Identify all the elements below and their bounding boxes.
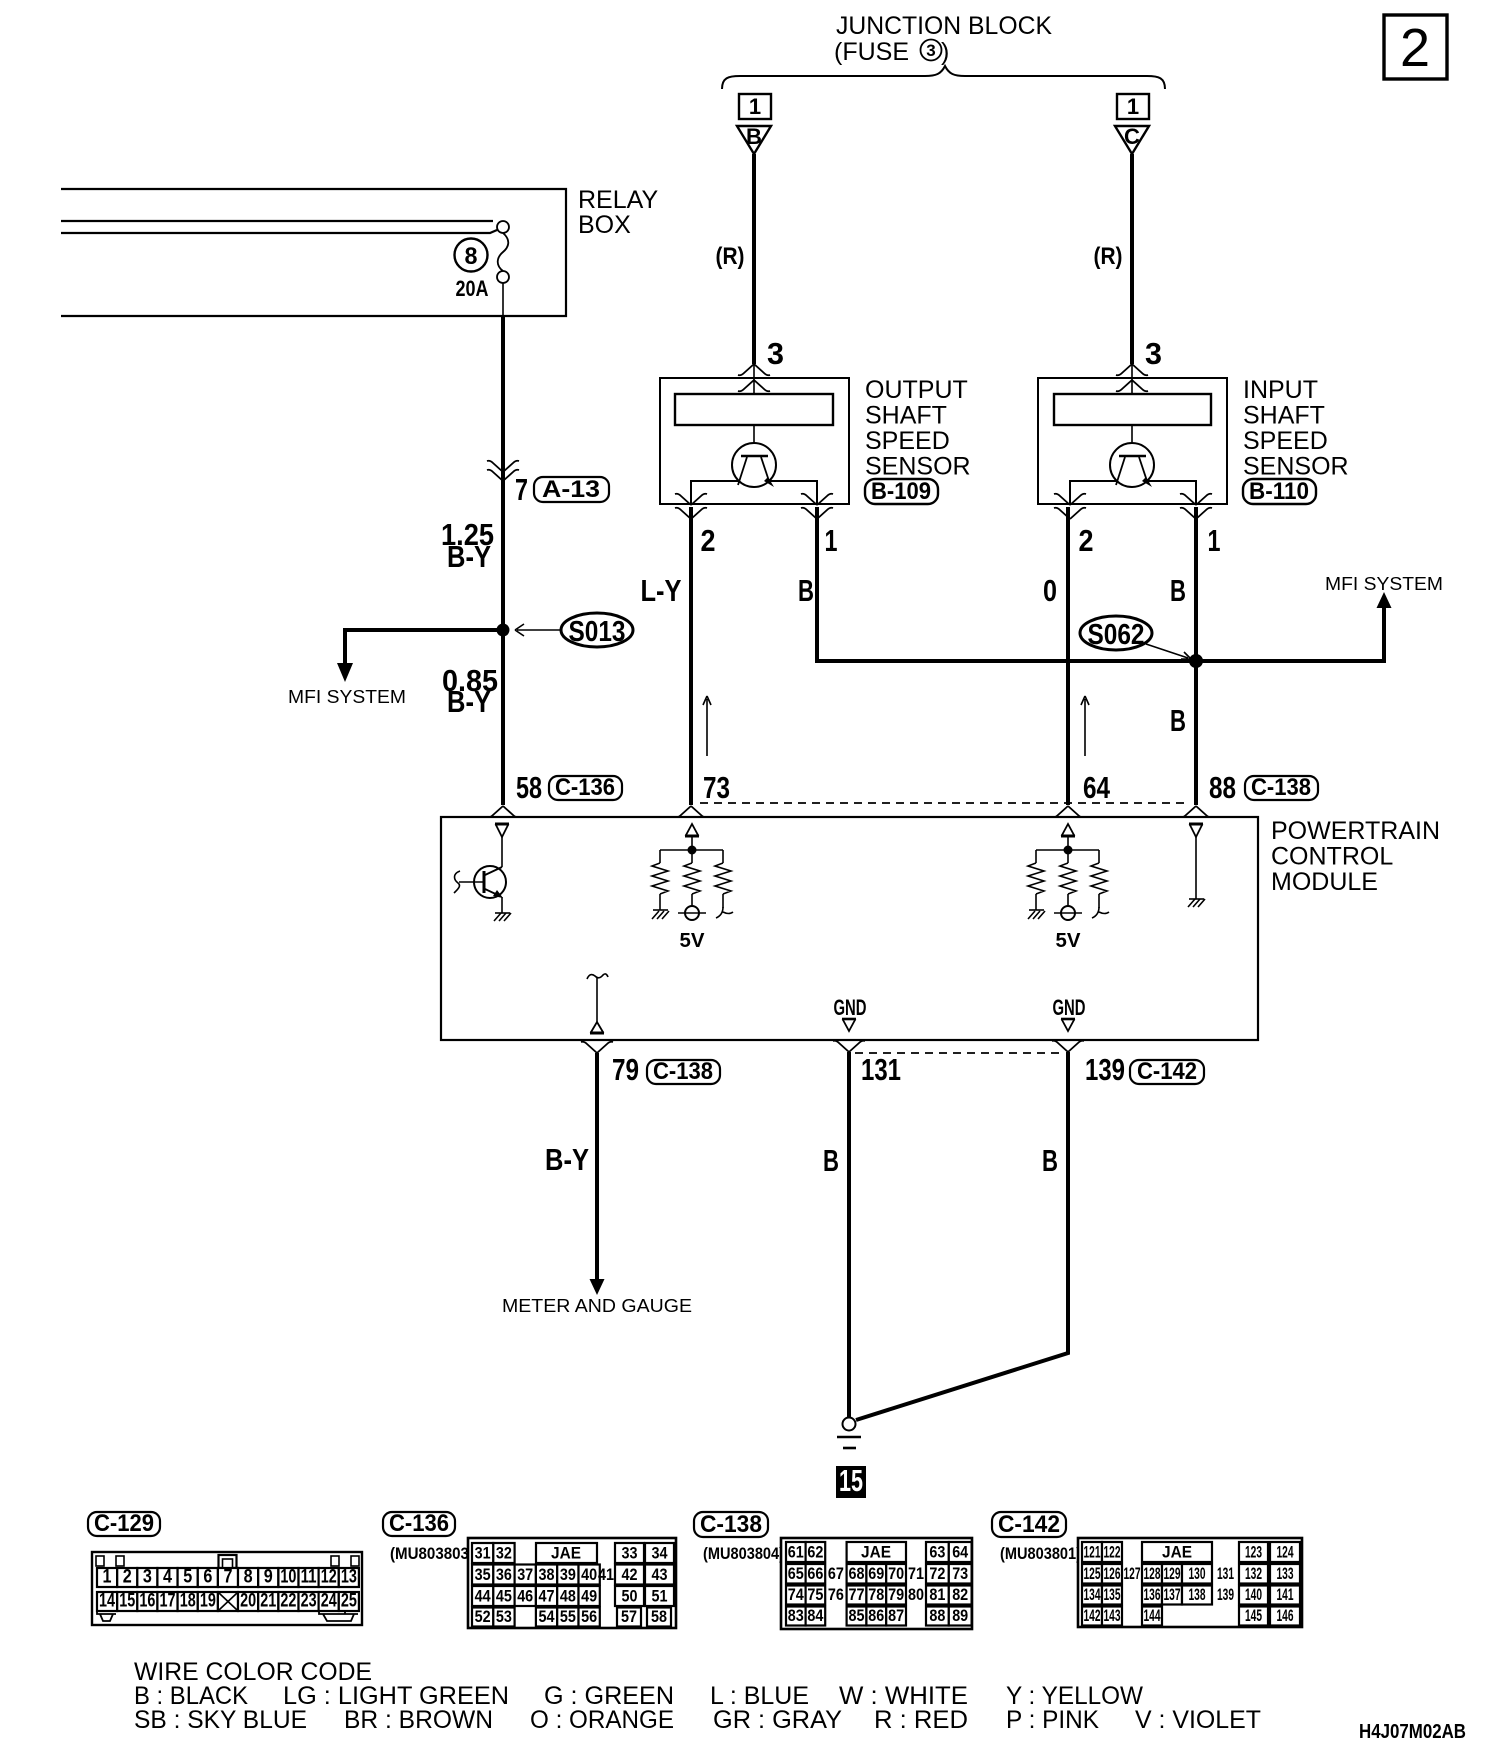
- svg-text:B: B: [1170, 573, 1186, 608]
- svg-text:2: 2: [701, 523, 716, 558]
- connector C-136 label: [549, 774, 622, 801]
- connector C-142 pin table: [1078, 1538, 1302, 1627]
- svg-text:SENSOR: SENSOR: [1243, 453, 1349, 481]
- PCM input triangle pin 64: [1061, 824, 1075, 836]
- fuse terminal upper: [497, 221, 509, 233]
- resistor R4: [1028, 863, 1044, 894]
- svg-text:22: 22: [280, 1591, 296, 1612]
- splice S013 junction dot: [497, 624, 510, 637]
- sensor element rect: [675, 394, 833, 425]
- fuse 8 element: [498, 233, 509, 271]
- chevron wire 131 below PCM: [833, 1041, 865, 1052]
- svg-text:1: 1: [103, 1567, 112, 1588]
- svg-text:B: B: [1170, 703, 1186, 738]
- signal arrow wire 64: [1081, 696, 1089, 756]
- chassis ground symbol: [837, 1436, 861, 1439]
- svg-text:31: 31: [475, 1544, 491, 1563]
- svg-text:134: 134: [1084, 1585, 1101, 1604]
- svg-text:89: 89: [952, 1606, 968, 1625]
- svg-text:68: 68: [849, 1564, 865, 1583]
- svg-text:32: 32: [496, 1544, 512, 1563]
- connector A-13 label: [534, 476, 609, 503]
- svg-text:B: B: [1042, 1143, 1058, 1178]
- junction block connector C: [1115, 94, 1149, 154]
- ground below R1: [652, 910, 669, 919]
- 5V supply circle: [678, 906, 706, 920]
- svg-text:33: 33: [622, 1544, 638, 1563]
- svg-text:5V: 5V: [680, 930, 706, 952]
- svg-text:139: 139: [1217, 1585, 1234, 1604]
- svg-text:71: 71: [908, 1564, 924, 1583]
- svg-text:80: 80: [908, 1585, 924, 1604]
- svg-text:146: 146: [1277, 1606, 1294, 1625]
- svg-text:R : RED: R : RED: [874, 1706, 968, 1734]
- svg-text:7: 7: [224, 1567, 233, 1588]
- svg-text:41: 41: [598, 1565, 614, 1584]
- svg-text:77: 77: [849, 1585, 865, 1604]
- wire B 139 to ground: [856, 1052, 1068, 1420]
- svg-text:JAE: JAE: [861, 1543, 891, 1562]
- svg-text:5: 5: [183, 1567, 192, 1588]
- svg-text:1: 1: [825, 523, 838, 558]
- svg-text:20A: 20A: [456, 276, 489, 301]
- chevron wire 79 below PCM: [581, 1042, 613, 1053]
- page number 2: [1384, 15, 1447, 79]
- svg-text:P : PINK: P : PINK: [1006, 1706, 1099, 1734]
- svg-text:1: 1: [1208, 523, 1221, 558]
- svg-text:7: 7: [515, 472, 528, 507]
- wire B input pin1 to PCM 88: [1194, 507, 1198, 805]
- svg-text:130: 130: [1189, 1564, 1206, 1583]
- sensor interior wire to pins: [1070, 481, 1196, 504]
- GND triangle right: [1061, 1019, 1075, 1031]
- ground number 15: [836, 1463, 866, 1498]
- chevrons output sensor pin2: [675, 494, 707, 505]
- connector C-138 label bottom: [647, 1058, 720, 1085]
- svg-text:66: 66: [807, 1564, 823, 1583]
- svg-text:87: 87: [888, 1606, 904, 1625]
- svg-text:C-142: C-142: [1137, 1058, 1197, 1085]
- wire to transistor: [501, 837, 503, 867]
- chevrons input sensor pin1: [1180, 494, 1212, 505]
- svg-text:72: 72: [929, 1564, 945, 1583]
- PCM input triangle pin 58: [495, 824, 509, 837]
- wire B output pin1 to splice S062 and MFI system: [817, 507, 1384, 661]
- relay box: [61, 189, 566, 316]
- svg-text:35: 35: [475, 1565, 491, 1584]
- wire B-Y from relay box to PCM pin 58: [501, 316, 505, 805]
- svg-text:V : VIOLET: V : VIOLET: [1135, 1706, 1261, 1734]
- ground inside PCM right: [1188, 899, 1205, 907]
- svg-text:B: B: [823, 1143, 839, 1178]
- svg-text:13: 13: [341, 1567, 357, 1588]
- svg-text:53: 53: [496, 1607, 512, 1626]
- svg-text:81: 81: [929, 1585, 945, 1604]
- svg-text:83: 83: [788, 1606, 804, 1625]
- pigtail output 79: [587, 974, 608, 979]
- svg-text:10: 10: [280, 1567, 296, 1588]
- arrow from S062 to splice: [1146, 644, 1191, 659]
- sensor element rect: [1054, 394, 1211, 425]
- svg-text:BR : BROWN: BR : BROWN: [344, 1706, 493, 1734]
- inline connector A-13 chevrons: [487, 461, 519, 472]
- svg-text:11: 11: [301, 1567, 317, 1588]
- svg-text:70: 70: [888, 1564, 904, 1583]
- GND triangle left: [842, 1019, 856, 1031]
- ground terminal circle: [843, 1418, 856, 1431]
- svg-text:(MU803801): (MU803801): [1000, 1544, 1081, 1563]
- svg-text:B-109: B-109: [871, 478, 931, 505]
- svg-text:C-142: C-142: [998, 1511, 1060, 1538]
- dashed harness line at PCM top: [700, 802, 1190, 804]
- connector C-129 label: [88, 1510, 160, 1537]
- svg-text:C-138: C-138: [700, 1511, 762, 1538]
- svg-text:88: 88: [1209, 770, 1236, 805]
- dashed harness line below PCM: [855, 1052, 1064, 1054]
- svg-text:58: 58: [651, 1607, 667, 1626]
- svg-text:69: 69: [868, 1564, 884, 1583]
- svg-text:37: 37: [517, 1565, 533, 1584]
- fuse number circle 8: [455, 239, 488, 272]
- svg-text:SHAFT: SHAFT: [1243, 402, 1325, 430]
- svg-text:143: 143: [1104, 1606, 1121, 1625]
- svg-text:40: 40: [581, 1565, 597, 1584]
- wire (R) from connector B: [752, 154, 756, 364]
- svg-text:142: 142: [1084, 1606, 1101, 1625]
- svg-text:18: 18: [180, 1591, 196, 1612]
- svg-text:45: 45: [496, 1587, 512, 1606]
- svg-text:19: 19: [200, 1591, 216, 1612]
- connector C-142 label top: [1130, 1058, 1204, 1085]
- svg-text:C-136: C-136: [555, 774, 615, 801]
- connector C-142 label: [992, 1511, 1066, 1538]
- svg-text:MFI SYSTEM: MFI SYSTEM: [288, 686, 406, 707]
- svg-text:56: 56: [581, 1607, 597, 1626]
- svg-text:24: 24: [321, 1591, 337, 1612]
- svg-text:54: 54: [539, 1607, 555, 1626]
- pigtail below R3: [716, 907, 733, 918]
- connector B-110 label: [1243, 478, 1316, 505]
- svg-text:C-138: C-138: [1251, 774, 1311, 801]
- svg-text:38: 38: [539, 1565, 555, 1584]
- fuse 3 circle: [921, 40, 942, 61]
- resistor R6: [1091, 863, 1107, 894]
- resistor R1: [652, 863, 668, 894]
- svg-text:3: 3: [926, 41, 935, 60]
- svg-text:50: 50: [622, 1587, 638, 1606]
- svg-text:86: 86: [868, 1606, 884, 1625]
- resistor R2: [684, 863, 700, 894]
- svg-text:GND: GND: [1053, 995, 1086, 1020]
- svg-text:B: B: [746, 124, 762, 149]
- svg-text:73: 73: [952, 1564, 968, 1583]
- svg-text:H4J07M02AB: H4J07M02AB: [1359, 1721, 1466, 1743]
- svg-text:85: 85: [849, 1606, 865, 1625]
- svg-text:79: 79: [888, 1585, 904, 1604]
- connector C-136 pin table: [468, 1538, 676, 1628]
- svg-text:145: 145: [1245, 1606, 1262, 1625]
- sensor interior wire to pins: [691, 481, 817, 504]
- svg-text:(MU803804): (MU803804): [703, 1544, 784, 1563]
- svg-text:125: 125: [1084, 1564, 1101, 1583]
- connector B-109 label: [865, 478, 938, 505]
- svg-text:131: 131: [861, 1052, 901, 1087]
- svg-text:44: 44: [475, 1587, 491, 1606]
- svg-text:8: 8: [465, 243, 478, 270]
- svg-text:12: 12: [321, 1567, 337, 1588]
- svg-text:CONTROL: CONTROL: [1271, 843, 1393, 871]
- wire B 131 to ground: [847, 1052, 851, 1418]
- svg-text:3: 3: [143, 1567, 152, 1588]
- svg-text:88: 88: [929, 1606, 945, 1625]
- svg-text:5V: 5V: [1056, 930, 1082, 952]
- signal arrow wire 73: [703, 696, 711, 756]
- PCM input triangle pin 73: [685, 824, 699, 836]
- arrowhead MFI system right: [1377, 592, 1392, 608]
- chevron pin3 inside input sensor: [1116, 380, 1148, 391]
- svg-text:58: 58: [516, 770, 542, 805]
- svg-text:64: 64: [952, 1543, 968, 1562]
- svg-text:127: 127: [1124, 1564, 1141, 1583]
- svg-text:49: 49: [581, 1587, 597, 1606]
- wire branch to MFI system: [345, 630, 503, 632]
- svg-text:(FUSE: (FUSE: [834, 38, 909, 66]
- PCM output triangle pin 79: [590, 1022, 604, 1033]
- wire 0 input pin2 to PCM 64: [1066, 507, 1070, 805]
- ground inside PCM left: [494, 913, 511, 921]
- chevron wire 73 into PCM: [675, 806, 707, 817]
- svg-text:S013: S013: [569, 616, 626, 648]
- wire (R) from connector C: [1130, 154, 1134, 364]
- svg-text:15: 15: [119, 1591, 135, 1612]
- wire pin3 inside sensor: [1131, 364, 1133, 394]
- svg-text:O : ORANGE: O : ORANGE: [530, 1706, 674, 1734]
- svg-text:63: 63: [929, 1543, 945, 1562]
- fuse terminal lower: [497, 271, 509, 283]
- svg-text:POWERTRAIN: POWERTRAIN: [1271, 817, 1440, 845]
- PCM input triangle pin 88: [1189, 824, 1203, 837]
- splice label S062: [1080, 616, 1152, 651]
- svg-text:S062: S062: [1088, 619, 1145, 651]
- svg-text:17: 17: [160, 1591, 176, 1612]
- svg-text:65: 65: [788, 1564, 804, 1583]
- svg-text:131: 131: [1217, 1564, 1234, 1583]
- svg-text:16: 16: [139, 1591, 155, 1612]
- splice label S013: [561, 613, 633, 648]
- wire B-Y to meter and gauge: [595, 1053, 599, 1280]
- powertrain control module box: [441, 817, 1258, 1040]
- svg-text:46: 46: [517, 1587, 533, 1606]
- svg-text:1: 1: [1127, 94, 1139, 119]
- svg-text:141: 141: [1277, 1585, 1294, 1604]
- svg-text:140: 140: [1245, 1585, 1262, 1604]
- svg-text:C-138: C-138: [653, 1058, 713, 1085]
- svg-text:126: 126: [1104, 1564, 1121, 1583]
- svg-text:124: 124: [1277, 1543, 1294, 1562]
- svg-text:39: 39: [560, 1565, 576, 1584]
- svg-text:14: 14: [99, 1591, 115, 1612]
- svg-text:1: 1: [749, 94, 761, 119]
- chevron wire 88 into PCM: [1180, 806, 1212, 817]
- svg-text:51: 51: [652, 1587, 668, 1606]
- svg-text:B: B: [798, 573, 814, 608]
- svg-text:135: 135: [1104, 1585, 1121, 1604]
- svg-text:137: 137: [1164, 1585, 1181, 1604]
- svg-text:A-13: A-13: [542, 476, 600, 503]
- svg-text:47: 47: [539, 1587, 555, 1606]
- chevron wire 139 below PCM: [1052, 1041, 1084, 1052]
- svg-text:123: 123: [1245, 1543, 1262, 1562]
- arrow from S013 to splice: [515, 624, 560, 636]
- splice S062 junction dot: [1189, 654, 1203, 668]
- svg-text:L-Y: L-Y: [641, 573, 682, 608]
- svg-text:3: 3: [767, 336, 784, 371]
- svg-text:JUNCTION BLOCK: JUNCTION BLOCK: [836, 12, 1052, 40]
- svg-text:GND: GND: [834, 995, 867, 1020]
- arrowhead to MFI system: [337, 663, 353, 682]
- svg-text:84: 84: [807, 1606, 823, 1625]
- svg-text:121: 121: [1084, 1543, 1101, 1562]
- svg-text:20: 20: [240, 1591, 256, 1612]
- svg-text:OUTPUT: OUTPUT: [865, 376, 968, 404]
- svg-text:SB : SKY BLUE: SB : SKY BLUE: [134, 1706, 307, 1734]
- chevrons input sensor pin2: [1054, 494, 1086, 505]
- svg-text:2: 2: [123, 1567, 132, 1588]
- svg-text:MFI SYSTEM: MFI SYSTEM: [1325, 573, 1443, 594]
- chevrons into input sensor: [1116, 364, 1148, 375]
- svg-text:62: 62: [807, 1543, 823, 1562]
- connector C-138 label top: [1245, 774, 1318, 801]
- connector C-138 label: [694, 1511, 768, 1538]
- svg-text:B-110: B-110: [1249, 478, 1309, 505]
- svg-text:34: 34: [652, 1544, 668, 1563]
- chevron pin3 inside output sensor: [738, 380, 770, 391]
- svg-text:GR : GRAY: GR : GRAY: [713, 1706, 842, 1734]
- svg-text:MODULE: MODULE: [1271, 868, 1378, 896]
- svg-text:21: 21: [260, 1591, 276, 1612]
- chevron wire 64 into PCM: [1052, 806, 1084, 817]
- svg-text:79: 79: [612, 1052, 639, 1087]
- svg-text:43: 43: [652, 1565, 668, 1584]
- svg-text:139: 139: [1085, 1052, 1125, 1087]
- svg-text:78: 78: [868, 1585, 884, 1604]
- svg-text:8: 8: [244, 1567, 253, 1588]
- svg-text:122: 122: [1104, 1543, 1121, 1562]
- svg-text:B-Y: B-Y: [447, 539, 491, 574]
- svg-text:42: 42: [622, 1565, 638, 1584]
- svg-text:0: 0: [1043, 573, 1057, 608]
- svg-text:133: 133: [1277, 1564, 1294, 1583]
- bus wire lower: [61, 230, 497, 233]
- junction block connector B: [737, 94, 771, 154]
- svg-text:52: 52: [475, 1607, 491, 1626]
- svg-text:57: 57: [621, 1607, 637, 1626]
- chevrons into output sensor: [738, 364, 770, 375]
- svg-text:75: 75: [807, 1585, 823, 1604]
- input shaft speed sensor B-110 box: [1038, 378, 1227, 504]
- svg-text:9: 9: [264, 1567, 273, 1588]
- connector C-136 label: [383, 1510, 455, 1537]
- svg-text:): ): [941, 38, 949, 66]
- svg-text:JAE: JAE: [551, 1544, 581, 1563]
- svg-text:23: 23: [301, 1591, 317, 1612]
- svg-text:2: 2: [1400, 18, 1430, 78]
- svg-text:B-Y: B-Y: [545, 1142, 589, 1177]
- svg-text:128: 128: [1144, 1564, 1161, 1583]
- pickup coil symbol: [732, 443, 776, 487]
- svg-text:61: 61: [788, 1543, 804, 1562]
- svg-text:129: 129: [1164, 1564, 1181, 1583]
- svg-text:(R): (R): [716, 243, 745, 270]
- junction block brace: [722, 66, 1165, 89]
- svg-text:73: 73: [703, 770, 730, 805]
- svg-text:METER AND GAUGE: METER AND GAUGE: [502, 1295, 692, 1316]
- wire transistor emitter to ground: [501, 897, 503, 913]
- wire L-Y output pin2 to PCM 73: [689, 507, 693, 805]
- svg-text:67: 67: [828, 1564, 844, 1583]
- svg-text:SHAFT: SHAFT: [865, 402, 947, 430]
- svg-text:64: 64: [1083, 770, 1111, 805]
- svg-text:144: 144: [1144, 1606, 1161, 1625]
- svg-text:76: 76: [828, 1585, 844, 1604]
- ground below R4: [1028, 910, 1045, 919]
- svg-text:36: 36: [496, 1565, 512, 1584]
- svg-text:138: 138: [1189, 1585, 1206, 1604]
- resistor R3: [715, 863, 731, 894]
- svg-text:INPUT: INPUT: [1243, 376, 1318, 404]
- bus wire upper: [61, 220, 493, 222]
- svg-text:RELAY: RELAY: [578, 186, 658, 214]
- svg-text:SENSOR: SENSOR: [865, 453, 971, 481]
- wire fuse output inside box: [502, 283, 504, 316]
- pickup coil symbol: [1110, 443, 1154, 487]
- chevrons output sensor pin1: [801, 494, 833, 505]
- connector C-138 pin table: [781, 1538, 972, 1629]
- wire 88 to ground: [1195, 837, 1197, 899]
- resistor R5: [1060, 863, 1076, 894]
- svg-text:136: 136: [1144, 1585, 1161, 1604]
- svg-text:74: 74: [788, 1585, 804, 1604]
- output shaft speed sensor B-109 box: [660, 378, 849, 504]
- svg-text:SPEED: SPEED: [865, 427, 950, 455]
- resistor network 64: [1028, 836, 1107, 910]
- connector C-129 face: [92, 1552, 362, 1625]
- svg-text:48: 48: [560, 1587, 576, 1606]
- pigtail on transistor base: [454, 871, 460, 893]
- svg-text:3: 3: [1145, 336, 1162, 371]
- svg-text:(MU803803): (MU803803): [390, 1544, 474, 1563]
- arrowhead meter and gauge: [590, 1279, 605, 1295]
- pigtail below R6: [1092, 907, 1109, 918]
- 5V supply circle: [1054, 906, 1082, 920]
- svg-text:JAE: JAE: [1162, 1543, 1192, 1562]
- svg-text:6: 6: [203, 1567, 212, 1588]
- svg-text:C: C: [1124, 124, 1140, 149]
- svg-text:C-136: C-136: [389, 1510, 449, 1537]
- svg-text:(R): (R): [1094, 243, 1123, 270]
- svg-text:2: 2: [1079, 523, 1094, 558]
- svg-text:4: 4: [163, 1567, 172, 1588]
- svg-text:BOX: BOX: [578, 211, 631, 239]
- svg-text:55: 55: [560, 1607, 576, 1626]
- transistor Q1: [459, 866, 506, 898]
- wire to output triangle 79: [596, 978, 598, 1022]
- chevron wire 58 into PCM: [487, 806, 519, 817]
- resistor network 73: [652, 836, 731, 910]
- svg-text:25: 25: [341, 1591, 357, 1612]
- svg-text:B-Y: B-Y: [447, 684, 491, 719]
- svg-text:82: 82: [952, 1585, 968, 1604]
